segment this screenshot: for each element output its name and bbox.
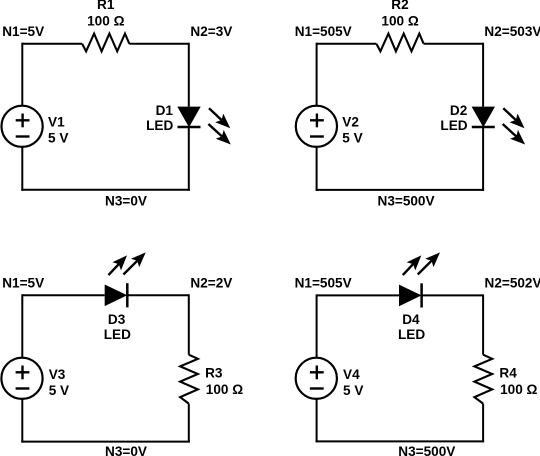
LED D3 xyxy=(105,283,128,307)
svg-text:D2: D2 xyxy=(450,103,468,118)
svg-text:N2=3V: N2=3V xyxy=(190,24,232,39)
wire right upper (circuit 4) xyxy=(482,294,484,354)
wire right upper (circuit 2) xyxy=(482,43,484,107)
wire right lower (circuit 1) xyxy=(188,127,190,191)
wire top right (circuit 3) xyxy=(127,294,189,296)
svg-text:N3=500V: N3=500V xyxy=(398,444,455,456)
svg-text:N1=505V: N1=505V xyxy=(295,24,352,39)
wire left lower (circuit 1) xyxy=(21,147,23,191)
svg-text:R1: R1 xyxy=(97,0,115,12)
svg-text:N3=500V: N3=500V xyxy=(378,193,435,208)
wire top (circuit 2) xyxy=(317,43,484,45)
resistor R1 xyxy=(82,34,129,52)
svg-text:N1=505V: N1=505V xyxy=(295,275,352,290)
svg-text:D3: D3 xyxy=(108,312,126,327)
LED D1 xyxy=(177,107,200,128)
svg-text:N2=2V: N2=2V xyxy=(190,275,232,290)
LED D4 light rays xyxy=(403,252,440,275)
voltage source V1 xyxy=(2,106,43,147)
svg-text:N3=0V: N3=0V xyxy=(105,193,147,208)
wire left lower (circuit 4) xyxy=(316,399,318,443)
wire left upper (circuit 2) xyxy=(316,43,318,106)
wire top right (circuit 4) xyxy=(422,294,484,296)
LED D1 light rays xyxy=(208,108,230,144)
resistor R4 xyxy=(474,355,492,404)
wire left lower (circuit 3) xyxy=(21,399,23,443)
svg-text:N3=0V: N3=0V xyxy=(105,444,147,456)
svg-text:LED: LED xyxy=(104,327,131,342)
svg-text:100 Ω: 100 Ω xyxy=(87,13,124,28)
wire left upper (circuit 1) xyxy=(21,43,23,106)
svg-text:N1=5V: N1=5V xyxy=(2,24,44,39)
svg-text:D4: D4 xyxy=(402,312,420,327)
svg-text:V3: V3 xyxy=(49,367,66,382)
svg-text:5 V: 5 V xyxy=(48,131,68,146)
svg-text:5 V: 5 V xyxy=(342,131,362,146)
svg-text:R2: R2 xyxy=(391,0,409,12)
svg-text:V1: V1 xyxy=(48,114,65,129)
LED D4 xyxy=(399,283,422,307)
wire bottom (circuit 3) xyxy=(21,441,190,443)
wire right lower (circuit 4) xyxy=(482,404,484,443)
voltage source V4 xyxy=(296,358,337,399)
wire right upper (circuit 1) xyxy=(188,43,190,107)
wire left upper (circuit 3) xyxy=(21,294,23,357)
svg-text:5 V: 5 V xyxy=(343,383,363,398)
wire right upper (circuit 3) xyxy=(188,294,190,354)
svg-text:LED: LED xyxy=(146,118,173,133)
svg-text:100 Ω: 100 Ω xyxy=(381,13,418,28)
svg-text:R4: R4 xyxy=(499,366,517,381)
wire right lower (circuit 3) xyxy=(188,404,190,443)
wire top left (circuit 3) xyxy=(22,294,104,296)
svg-text:D1: D1 xyxy=(156,103,174,118)
svg-text:100 Ω: 100 Ω xyxy=(206,382,243,397)
wire top left (circuit 4) xyxy=(317,294,399,296)
svg-text:N1=5V: N1=5V xyxy=(2,275,44,290)
LED D2 light rays xyxy=(503,108,525,144)
svg-text:LED: LED xyxy=(440,118,467,133)
resistor R2 xyxy=(376,34,423,52)
svg-text:V4: V4 xyxy=(343,367,360,382)
svg-text:R3: R3 xyxy=(205,366,223,381)
svg-text:V2: V2 xyxy=(342,114,359,129)
resistor R3 xyxy=(180,355,198,404)
wire bottom (circuit 1) xyxy=(21,189,190,191)
svg-text:N2=503V: N2=503V xyxy=(484,24,540,39)
wire right lower (circuit 2) xyxy=(482,127,484,191)
wire top (circuit 1) xyxy=(22,43,189,45)
svg-text:LED: LED xyxy=(398,327,425,342)
svg-text:N2=502V: N2=502V xyxy=(485,275,540,290)
wire bottom (circuit 4) xyxy=(316,440,485,442)
svg-text:5 V: 5 V xyxy=(49,383,69,398)
voltage source V3 xyxy=(1,358,42,399)
svg-text:100 Ω: 100 Ω xyxy=(500,382,537,397)
wire bottom (circuit 2) xyxy=(316,189,485,191)
wire left lower (circuit 2) xyxy=(316,147,318,191)
LED D3 light rays xyxy=(109,252,146,275)
wire left upper (circuit 4) xyxy=(316,294,318,357)
LED D2 xyxy=(472,107,495,128)
voltage source V2 xyxy=(296,106,337,147)
